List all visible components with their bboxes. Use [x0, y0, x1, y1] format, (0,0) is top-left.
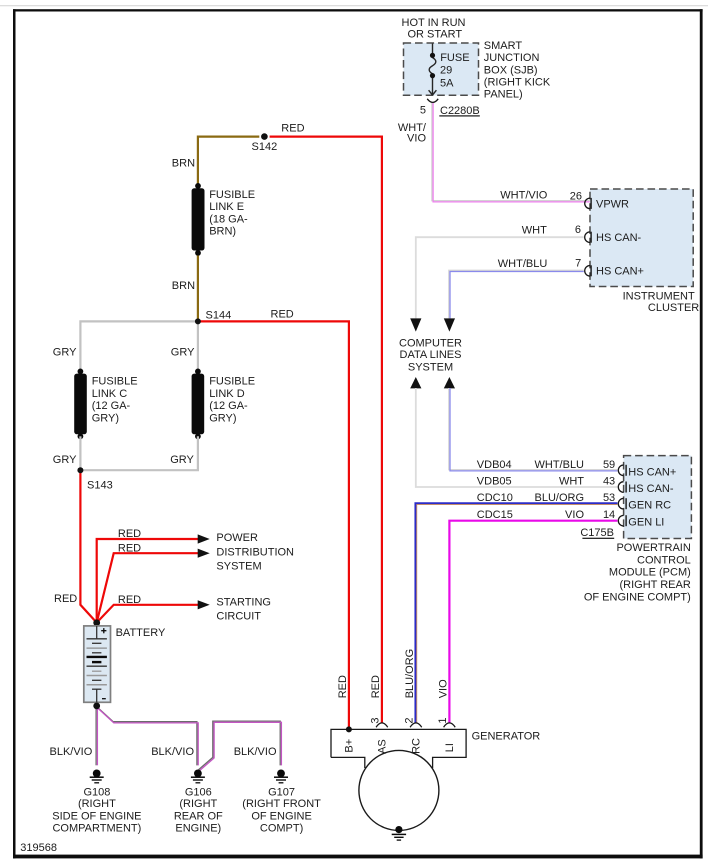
svg-text:RED: RED [118, 594, 141, 606]
svg-text:(12 GA-: (12 GA- [92, 400, 131, 412]
svg-text:WHT: WHT [522, 225, 547, 237]
fusible link D (12 GA-GRY) [195, 369, 201, 375]
svg-text:GRY: GRY [171, 346, 195, 358]
svg-text:LI: LI [444, 743, 456, 752]
svg-text:RED: RED [370, 675, 382, 698]
svg-text:WHT/BLU: WHT/BLU [535, 459, 585, 471]
node B+ junction [346, 726, 352, 732]
wire WHT from IC pin 6 to computer data lines [416, 237, 584, 318]
generator box [331, 729, 466, 768]
svg-text:ENGINE): ENGINE) [175, 823, 221, 835]
svg-text:VIO: VIO [407, 133, 426, 145]
instrument cluster box [590, 189, 693, 287]
svg-text:LINK C: LINK C [92, 388, 128, 400]
svg-text:COMPUTER: COMPUTER [399, 337, 462, 349]
svg-text:14: 14 [603, 509, 615, 521]
svg-text:RED: RED [281, 123, 304, 135]
PCM pin 14 connector [618, 515, 623, 526]
wire RED from S143 down to battery [80, 470, 96, 622]
wire GRY right branch [197, 323, 199, 371]
svg-text:CLUSTER: CLUSTER [648, 302, 699, 314]
svg-text:STARTING: STARTING [216, 596, 271, 608]
svg-text:AS: AS [377, 739, 389, 754]
wire WHT/BLU VDB04 from data lines to PCM pin 59 [449, 388, 618, 471]
IC pin 26 connector [585, 198, 590, 209]
generator body circle [359, 750, 439, 830]
arrow up from WHT/BLU (VDB04) [444, 377, 455, 388]
wire BRN lower [197, 256, 199, 321]
svg-text:FUSIBLE: FUSIBLE [209, 189, 255, 201]
svg-text:BLK/VIO: BLK/VIO [50, 746, 93, 758]
arrow down WHT into data lines system [410, 318, 421, 331]
svg-text:GEN LI: GEN LI [628, 517, 664, 529]
svg-text:29: 29 [440, 64, 452, 76]
svg-text:1: 1 [437, 717, 449, 723]
svg-text:G106: G106 [185, 786, 212, 798]
svg-text:GRY: GRY [53, 346, 77, 358]
wire BLK/VIO to G108 [96, 706, 97, 765]
wire WHT VDB05 from data lines to PCM pin 43 [416, 388, 618, 487]
svg-text:VIO: VIO [438, 679, 450, 698]
svg-text:COMPT): COMPT) [260, 823, 303, 835]
top hairline [0, 5, 708, 6]
fusible link C (12 GA-GRY) [78, 369, 84, 375]
svg-text:GRY: GRY [53, 454, 77, 466]
svg-text:BLK/VIO: BLK/VIO [151, 746, 194, 758]
fuse F29 5A symbol [429, 44, 437, 96]
generator case ground [392, 826, 406, 840]
svg-text:RED: RED [271, 309, 294, 321]
splice S144 [195, 318, 201, 324]
svg-text:HS CAN+: HS CAN+ [596, 266, 644, 278]
svg-text:POWERTRAIN: POWERTRAIN [616, 542, 690, 554]
fusible link E (18 GA-BRN) [195, 183, 201, 189]
svg-text:JUNCTION: JUNCTION [484, 52, 540, 64]
svg-text:BLK/VIO: BLK/VIO [234, 746, 277, 758]
svg-text:2: 2 [404, 717, 416, 723]
ground G106 [191, 770, 205, 783]
splice S143 [77, 467, 83, 473]
svg-text:(12 GA-: (12 GA- [209, 400, 248, 412]
connector C2280B arc below SJB [427, 99, 438, 103]
svg-text:DISTRIBUTION: DISTRIBUTION [216, 547, 294, 559]
svg-text:COMPARTMENT): COMPARTMENT) [52, 823, 141, 835]
svg-text:HS CAN-: HS CAN- [628, 483, 674, 495]
IC pin 6 connector [585, 232, 590, 243]
svg-text:3: 3 [370, 717, 382, 723]
svg-text:INSTRUMENT: INSTRUMENT [623, 291, 695, 303]
svg-text:BOX (SJB): BOX (SJB) [484, 64, 538, 76]
svg-text:53: 53 [603, 492, 615, 504]
wire VIO CDC15 from PCM pin 14 to generator LI [449, 521, 617, 724]
wire RED battery to starting circuit [97, 605, 198, 623]
svg-text:WHT: WHT [559, 476, 584, 488]
svg-text:GENERATOR: GENERATOR [472, 731, 541, 743]
svg-text:VDB04: VDB04 [477, 459, 512, 471]
svg-text:C2280B: C2280B [440, 105, 480, 117]
node battery negative junction [93, 703, 100, 710]
IC pin 7 connector [585, 266, 590, 277]
svg-text:VIO: VIO [565, 509, 584, 521]
svg-text:GRY: GRY [170, 454, 194, 466]
svg-text:LINK E: LINK E [209, 201, 244, 213]
wire RED from S142 to generator AS [270, 137, 382, 724]
svg-text:CONTROL: CONTROL [637, 554, 691, 566]
wire RED from S144 to generator B+ [198, 321, 349, 729]
wire BLK/VIO chain G106 to G107 [199, 721, 282, 771]
wire GRY bottom joins [79, 436, 81, 470]
svg-text:FUSIBLE: FUSIBLE [92, 376, 138, 388]
svg-text:RC: RC [411, 738, 423, 754]
svg-text:B+: B+ [344, 739, 356, 753]
svg-text:SMART: SMART [484, 40, 523, 52]
svg-text:PANEL): PANEL) [484, 89, 523, 101]
svg-text:G108: G108 [83, 786, 110, 798]
svg-text:RED: RED [118, 528, 141, 540]
svg-text:DATA LINES: DATA LINES [400, 349, 462, 361]
svg-text:(RIGHT REAR: (RIGHT REAR [619, 579, 690, 591]
svg-text:43: 43 [603, 476, 615, 488]
svg-text:HS CAN+: HS CAN+ [628, 466, 676, 478]
svg-text:BRN: BRN [172, 157, 195, 169]
svg-text:WHT/VIO: WHT/VIO [500, 190, 547, 202]
svg-text:59: 59 [603, 459, 615, 471]
svg-text:CDC15: CDC15 [477, 509, 513, 521]
svg-text:FUSE: FUSE [440, 52, 469, 64]
svg-text:SYSTEM: SYSTEM [408, 362, 453, 374]
svg-text:FUSIBLE: FUSIBLE [209, 376, 255, 388]
svg-text:BRN: BRN [172, 280, 195, 292]
svg-text:C175B: C175B [580, 527, 614, 539]
svg-text:GRY): GRY) [209, 412, 236, 424]
svg-text:SIDE OF ENGINE: SIDE OF ENGINE [52, 810, 141, 822]
svg-text:MODULE (PCM): MODULE (PCM) [609, 567, 691, 579]
node battery positive junction [93, 619, 100, 626]
svg-text:6: 6 [575, 224, 581, 236]
PCM pin 43 connector [618, 482, 623, 493]
wire RED battery to power distribution (2) [97, 553, 198, 622]
powertrain control module PCM box [624, 456, 692, 539]
svg-text:VPWR: VPWR [596, 198, 629, 210]
generator pin RC connector [410, 723, 422, 727]
svg-text:RED: RED [337, 675, 349, 698]
svg-text:S143: S143 [87, 479, 113, 491]
svg-text:319568: 319568 [20, 842, 57, 854]
svg-text:OF ENGINE: OF ENGINE [251, 810, 312, 822]
svg-text:HS CAN-: HS CAN- [596, 232, 642, 244]
svg-text:OR START: OR START [408, 29, 463, 41]
generator pin LI connector [444, 723, 456, 727]
svg-text:POWER: POWER [216, 532, 258, 544]
svg-text:BRN): BRN) [209, 226, 236, 238]
svg-text:CIRCUIT: CIRCUIT [216, 610, 261, 622]
svg-text:HOT IN RUN: HOT IN RUN [402, 17, 466, 29]
svg-text:BLU/ORG: BLU/ORG [404, 649, 416, 699]
wire BRN upper [198, 137, 259, 186]
wire WHT/BLU from IC pin 7 to computer data lines [449, 270, 584, 318]
PCM pin 53 connector [618, 498, 623, 509]
svg-text:CDC10: CDC10 [477, 492, 513, 504]
generator pin AS connector [376, 723, 388, 727]
PCM pin 59 connector [618, 465, 623, 476]
svg-text:GRY): GRY) [92, 412, 119, 424]
svg-text:(RIGHT: (RIGHT [78, 798, 116, 810]
svg-text:5A: 5A [440, 77, 454, 89]
svg-text:OF ENGINE COMPT): OF ENGINE COMPT) [584, 592, 691, 604]
svg-text:S144: S144 [206, 310, 232, 322]
svg-text:G107: G107 [268, 786, 295, 798]
svg-text:VDB05: VDB05 [477, 476, 512, 488]
ground G108 [90, 770, 104, 783]
svg-text:7: 7 [575, 257, 581, 269]
svg-text:SYSTEM: SYSTEM [216, 561, 261, 573]
svg-text:(18 GA-: (18 GA- [209, 213, 248, 225]
svg-text:REAR OF: REAR OF [174, 810, 223, 822]
svg-text:GEN RC: GEN RC [628, 500, 671, 512]
wire BLK/VIO to G106 [96, 706, 198, 765]
arrow down WHT/BLU into data lines system [444, 318, 455, 331]
svg-text:S142: S142 [252, 141, 278, 153]
svg-text:RED: RED [118, 543, 141, 555]
arrow up from WHT (VDB05) [410, 377, 421, 388]
wire BLU/ORG CDC10 from PCM pin 53 to generator RC [415, 503, 617, 723]
svg-text:26: 26 [570, 190, 582, 202]
svg-text:(RIGHT KICK: (RIGHT KICK [484, 77, 551, 89]
wire GRY left branch [80, 321, 197, 371]
svg-text:LINK D: LINK D [209, 388, 245, 400]
svg-text:BATTERY: BATTERY [116, 627, 166, 639]
wire WHT/VIO from SJB pin 5 to instrument cluster pin 26 [432, 103, 590, 202]
ground G107 [274, 770, 288, 783]
svg-text:(RIGHT FRONT: (RIGHT FRONT [242, 798, 321, 810]
svg-text:5: 5 [420, 105, 426, 117]
wire RED battery to power distribution (1) [97, 539, 198, 623]
svg-text:(RIGHT: (RIGHT [179, 798, 217, 810]
splice S142 [261, 133, 268, 140]
svg-text:RED: RED [54, 593, 77, 605]
smart junction box SJB (dashed box) [404, 43, 479, 95]
svg-text:WHT/BLU: WHT/BLU [498, 258, 548, 270]
svg-text:BLU/ORG: BLU/ORG [534, 492, 584, 504]
battery [84, 626, 111, 702]
